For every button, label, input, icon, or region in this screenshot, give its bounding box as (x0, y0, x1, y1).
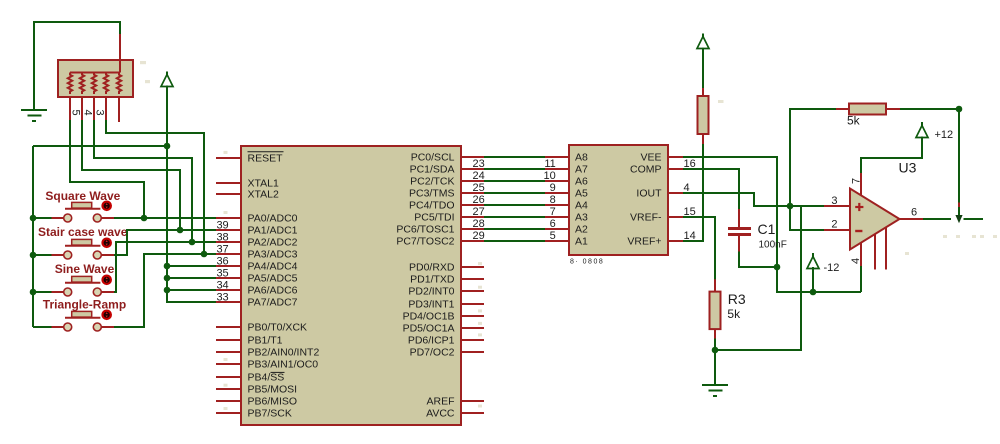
faint hidden pin ghosts (224, 151, 228, 154)
svg-text:9: 9 (550, 182, 556, 194)
junction PA6 (164, 287, 171, 294)
svg-text:PA4/ADC4: PA4/ADC4 (248, 261, 298, 273)
wire pack pin3 to PA2 row (94, 120, 192, 242)
button SW2 Stair case wave (33, 225, 128, 259)
wire PA6 to rail (167, 289, 217, 291)
pin PD4 stub (461, 315, 484, 317)
junction SW1 left rail (30, 215, 37, 222)
resistor element 2 in pack (80, 73, 84, 95)
pin IOUT stub (668, 192, 683, 194)
svg-text:PD6/ICP1: PD6/ICP1 (408, 335, 455, 347)
svg-text:35: 35 (216, 268, 228, 280)
pin PC2 stub (461, 180, 484, 182)
wire PC2 to A6 (484, 180, 545, 182)
wire VREF- to R3 (683, 217, 715, 280)
resistor R3 body (710, 292, 721, 330)
svg-text:4: 4 (850, 258, 862, 264)
svg-text:Square Wave: Square Wave (45, 189, 120, 203)
resistor R2 right stub (886, 108, 900, 110)
power arrow VCC top (697, 34, 709, 63)
opamp pin2 stub (824, 229, 850, 231)
wire PC1 to A7 (484, 168, 545, 170)
minus symbol (855, 230, 862, 232)
svg-text:A1: A1 (575, 236, 588, 248)
junction feedback output (956, 106, 963, 113)
wire IOUT to opamp pin3 (683, 193, 825, 206)
pin PC3 stub (461, 192, 484, 194)
svg-text:33: 33 (216, 292, 228, 304)
opamp pin7 stub (860, 173, 862, 196)
resistor R1 bottom stub (702, 134, 704, 145)
svg-text:PC5/TDI: PC5/TDI (414, 212, 454, 224)
svg-text:5k: 5k (727, 307, 741, 321)
pin PB3 stub (216, 363, 241, 365)
DAC left pin names (575, 152, 588, 248)
svg-text:11: 11 (544, 158, 555, 170)
pin PC5 stub (461, 216, 484, 218)
DAC right pin names (627, 152, 662, 248)
wire R2 to output junction (900, 108, 959, 110)
svg-text:PD2/INT0: PD2/INT0 (408, 286, 454, 298)
pin PA4 stub (216, 265, 241, 267)
wire pin4 to negative rail (860, 266, 862, 292)
wire PA5 to rail (167, 277, 217, 279)
wire -12 to negative rail (812, 267, 814, 292)
junction pack pin4 on PA1 wire (177, 227, 184, 234)
opamp pin3 stub (824, 205, 850, 207)
pin PC0 stub (461, 156, 484, 158)
svg-text:R3: R3 (728, 291, 746, 307)
svg-text:U3: U3 (899, 160, 917, 176)
svg-text:7: 7 (550, 206, 556, 218)
op-amp U3 triangle (850, 189, 900, 250)
pack pin 5 stub (69, 97, 71, 121)
svg-text:A8: A8 (575, 152, 588, 164)
opamp pin5 stub (885, 228, 887, 270)
svg-text:PC4/TDO: PC4/TDO (409, 200, 455, 212)
wire SW4 to MCU PA3 (114, 254, 217, 327)
faint hidden label near pack (140, 61, 146, 64)
wire pack pin5 to PA0 row (70, 120, 144, 218)
svg-text:PB5/MOSI: PB5/MOSI (248, 384, 298, 396)
wire PC0 to A8 (484, 156, 545, 158)
button SW3 Sine Wave (33, 262, 115, 296)
svg-text:6: 6 (911, 207, 917, 219)
pin A2 stub (545, 228, 569, 230)
wire pack pin2 to PA3 row (106, 120, 204, 254)
pin A4 stub (545, 204, 569, 206)
svg-text:PB6/MISO: PB6/MISO (248, 396, 298, 408)
wire SW1 to MCU PA0 (114, 217, 217, 219)
svg-text:38: 38 (216, 232, 228, 244)
wire output junction down (958, 109, 960, 203)
pin PC4 stub (461, 204, 484, 206)
pin PB2 stub (216, 351, 241, 353)
svg-text:A5: A5 (575, 188, 588, 200)
wire output segment right (964, 218, 984, 220)
junction SW3 left rail (30, 289, 37, 296)
svg-text:PA1/ADC1: PA1/ADC1 (248, 225, 298, 237)
svg-text:2: 2 (831, 219, 837, 231)
opamp pin1 stub (874, 234, 876, 270)
svg-text:PD7/OC2: PD7/OC2 (410, 347, 455, 359)
wire ground junction up to pin3 net (715, 206, 801, 350)
svg-text:36: 36 (216, 256, 228, 268)
ground GND1 (21, 110, 47, 121)
wire PC3 to A5 (484, 192, 545, 194)
svg-text:5: 5 (69, 110, 81, 116)
svg-text:PC2/TCK: PC2/TCK (410, 176, 454, 188)
resistor R1 top stub (702, 88, 704, 97)
resistor R2 5k left stub (836, 108, 850, 110)
svg-text:3: 3 (831, 195, 837, 207)
pin A1 stub (545, 240, 569, 242)
junction -12 on negative rail (810, 289, 817, 296)
pin A7 stub (545, 168, 569, 170)
svg-text:A6: A6 (575, 176, 588, 188)
wire buttons left rail (32, 146, 34, 327)
junction PA4 (164, 263, 171, 270)
svg-text:PB1/T1: PB1/T1 (248, 335, 283, 347)
svg-text:PB2/AIN0/INT2: PB2/AIN0/INT2 (248, 347, 320, 359)
svg-text:4: 4 (81, 110, 93, 116)
wire SW2 to MCU PA1 (114, 230, 217, 255)
button SW4 Triangle-Ramp (33, 298, 126, 332)
svg-text:AVCC: AVCC (426, 408, 455, 420)
wire PC5 to A3 (484, 216, 545, 218)
svg-text:26: 26 (473, 194, 485, 206)
MCU U1 body (241, 146, 461, 425)
wire PC7 to A1 (484, 240, 545, 242)
pin RESET stub (216, 157, 241, 159)
svg-text:29: 29 (473, 230, 485, 242)
svg-text:PD3/INT1: PD3/INT1 (408, 299, 454, 311)
svg-text:27: 27 (473, 206, 485, 218)
junction R3 bottom (712, 347, 719, 354)
opamp pin4 stub (860, 243, 862, 267)
svg-text:A4: A4 (575, 200, 588, 212)
pin VEE stub (668, 156, 683, 158)
pin PB1 stub (216, 339, 241, 341)
pin PD5 stub (461, 327, 484, 329)
svg-text:25: 25 (473, 182, 485, 194)
pin PC7 stub (461, 240, 484, 242)
pin PA3 stub (216, 253, 241, 255)
resistor element 1 in pack (68, 73, 72, 95)
svg-text:VREF+: VREF+ (627, 236, 661, 248)
svg-text:PB3/AIN1/OC0: PB3/AIN1/OC0 (248, 359, 319, 371)
svg-text:PD4/OC1B: PD4/OC1B (403, 311, 455, 323)
svg-text:A7: A7 (575, 164, 588, 176)
resistor R2 5k body (849, 104, 886, 115)
junction VCC rail (164, 143, 171, 150)
wire button left rail to VCC (33, 145, 167, 147)
pin VREF+ stub (668, 240, 683, 242)
pin PC1 stub (461, 168, 484, 170)
svg-text:PB4/SS: PB4/SS (248, 372, 285, 384)
MCU left pin names (248, 152, 320, 420)
pin PD2 stub (461, 290, 484, 292)
svg-text:7: 7 (851, 178, 863, 184)
svg-text:37: 37 (216, 244, 228, 256)
svg-text:Stair case wave: Stair case wave (38, 225, 128, 239)
pin PD3 stub (461, 303, 484, 305)
opamp output stub (899, 218, 924, 220)
svg-text:PD1/TXD: PD1/TXD (410, 274, 455, 286)
button SW1 Square Wave (33, 189, 121, 222)
junction PA5 (164, 275, 171, 282)
svg-text:6: 6 (550, 218, 556, 230)
pin PA5 stub (216, 277, 241, 279)
svg-text:39: 39 (216, 220, 228, 232)
wire SW3 to MCU PA2 (114, 242, 217, 292)
svg-text:PB7/SCK: PB7/SCK (248, 408, 292, 420)
svg-text:A2: A2 (575, 224, 588, 236)
opamp feedback wire 5k to pin2 (790, 109, 837, 230)
svg-text:100nF: 100nF (759, 240, 787, 251)
power arrow -12 (807, 253, 839, 278)
svg-text:VEE: VEE (640, 152, 661, 164)
svg-text:5: 5 (550, 230, 556, 242)
junction pack pin3 on PA2 wire (189, 239, 196, 246)
pin AVCC stub (461, 412, 484, 414)
svg-text:C1: C1 (758, 221, 776, 237)
resistor element 4 in pack (104, 73, 108, 95)
svg-text:23: 23 (473, 158, 485, 170)
resistor R1 body (698, 96, 709, 134)
svg-text:-12: -12 (824, 262, 840, 274)
svg-text:Triangle-Ramp: Triangle-Ramp (43, 298, 126, 312)
svg-text:28: 28 (473, 218, 485, 230)
svg-text:PA3/ADC3: PA3/ADC3 (248, 249, 298, 261)
pin AREF stub (461, 400, 484, 402)
svg-text:PC1/SDA: PC1/SDA (410, 164, 455, 176)
wire R3 bottom to ground junction (714, 339, 716, 385)
wire VCC rail down to PA7 (167, 86, 217, 303)
junction feedback on pin3 wire (787, 203, 794, 210)
pin VREF- stub (668, 216, 683, 218)
svg-text:5k: 5k (847, 114, 861, 128)
wire output segment (923, 218, 951, 220)
svg-text:XTAL2: XTAL2 (248, 189, 279, 201)
wire arrow to R1 (702, 48, 704, 89)
svg-text:PC7/TOSC2: PC7/TOSC2 (396, 236, 454, 248)
wire VEE net (683, 157, 861, 292)
svg-text:A3: A3 (575, 212, 588, 224)
pin PB6 stub (216, 400, 241, 402)
pin PA0 stub (216, 217, 241, 219)
pin PB4 stub (216, 376, 241, 378)
pin PD1 stub (461, 278, 484, 280)
svg-text:PA7/ADC7: PA7/ADC7 (248, 297, 298, 309)
pin PD0 stub (461, 266, 484, 268)
svg-text:RESET: RESET (248, 152, 284, 164)
wire pack pin1 stub (119, 34, 121, 61)
pin PA6 stub (216, 289, 241, 291)
svg-text:PB0/T0/XCK: PB0/T0/XCK (248, 322, 308, 334)
svg-text:24: 24 (473, 170, 485, 182)
probe arrow marker (955, 215, 962, 223)
svg-text:PD5/OC1A: PD5/OC1A (403, 323, 455, 335)
junction pack pin2 on PA3 wire (201, 251, 208, 258)
power arrow VCC left (161, 72, 173, 93)
pack pin 4 stub (81, 97, 83, 121)
svg-text:10: 10 (544, 170, 556, 182)
svg-text:PA2/ADC2: PA2/ADC2 (248, 237, 298, 249)
capacitor C1 (728, 209, 751, 252)
junction pack pin5 on PA0 wire (141, 215, 148, 222)
svg-text:PC6/TOSC1: PC6/TOSC1 (396, 224, 454, 236)
junction C1 bottom on VEE drop (774, 264, 781, 271)
resistor element 5 in pack (117, 73, 121, 95)
plus symbol (855, 203, 863, 211)
wire +12 to opamp pin7 (861, 137, 922, 175)
wire PC4 to A4 (484, 204, 545, 206)
wire C1 bottom to VEE drop (739, 252, 777, 268)
red tick on output drop (958, 203, 960, 208)
svg-text:34: 34 (216, 280, 228, 292)
wire ground to resistor pack common (34, 22, 120, 109)
power arrow +12 (916, 122, 953, 145)
junction SW2 left rail (30, 252, 37, 259)
svg-text:PC3/TMS: PC3/TMS (409, 188, 455, 200)
svg-text:+12: +12 (935, 129, 954, 141)
svg-text:AREF: AREF (426, 396, 454, 408)
pin PB5 stub (216, 388, 241, 390)
pin PB0 stub (216, 326, 241, 328)
pin A5 stub (545, 192, 569, 194)
pin PD6 stub (461, 339, 484, 341)
DAC U2 body (569, 145, 668, 255)
pin PB7 stub (216, 412, 241, 414)
pack pin 3 stub (93, 97, 95, 121)
resistor R3 top stub (714, 279, 716, 292)
pin XTAL1 stub (216, 182, 241, 184)
pin PA7 stub (216, 301, 241, 303)
pin PA1 stub (216, 229, 241, 231)
pin A8 stub (545, 156, 569, 158)
svg-text:VREF-: VREF- (630, 212, 662, 224)
svg-text:Sine Wave: Sine Wave (55, 262, 115, 276)
resistor element 3 in pack (92, 73, 96, 95)
svg-text:8· 0808: 8· 0808 (570, 259, 604, 266)
svg-text:8: 8 (550, 194, 556, 206)
wire PA4 to rail (167, 265, 217, 267)
pin PA2 stub (216, 241, 241, 243)
svg-text:PA6/ADC6: PA6/ADC6 (248, 285, 298, 297)
wire PC6 to A2 (484, 228, 545, 230)
svg-text:PA0/ADC0: PA0/ADC0 (248, 213, 298, 225)
faint hidden marks near output (905, 235, 997, 255)
svg-text:3: 3 (94, 110, 106, 116)
pin A3 stub (545, 216, 569, 218)
svg-text:COMP: COMP (630, 164, 662, 176)
pin XTAL2 stub (216, 193, 241, 195)
pin PC6 stub (461, 228, 484, 230)
wire output drop lower (958, 207, 960, 216)
pack pin 1 stub (118, 97, 120, 122)
pin PD7 stub (461, 351, 484, 353)
faint hidden label near R1 (718, 100, 724, 103)
ground GND2 (702, 385, 728, 396)
wire R1 to VREF+ (683, 144, 703, 241)
wire pack pin4 to PA1 row (82, 120, 180, 230)
svg-text:PD0/RXD: PD0/RXD (409, 262, 455, 274)
svg-text:IOUT: IOUT (636, 188, 662, 200)
MCU right pin names (396, 152, 455, 420)
svg-text:PC0/SCL: PC0/SCL (411, 152, 455, 164)
svg-text:PA5/ADC5: PA5/ADC5 (248, 273, 298, 285)
pin A6 stub (545, 180, 569, 182)
resistor pack RX1 body (58, 60, 133, 97)
wire COMP to C1 (683, 169, 739, 210)
resistor R3 bottom stub (714, 329, 716, 339)
pack pin 2 stub (105, 97, 107, 121)
pin COMP stub (668, 168, 683, 170)
